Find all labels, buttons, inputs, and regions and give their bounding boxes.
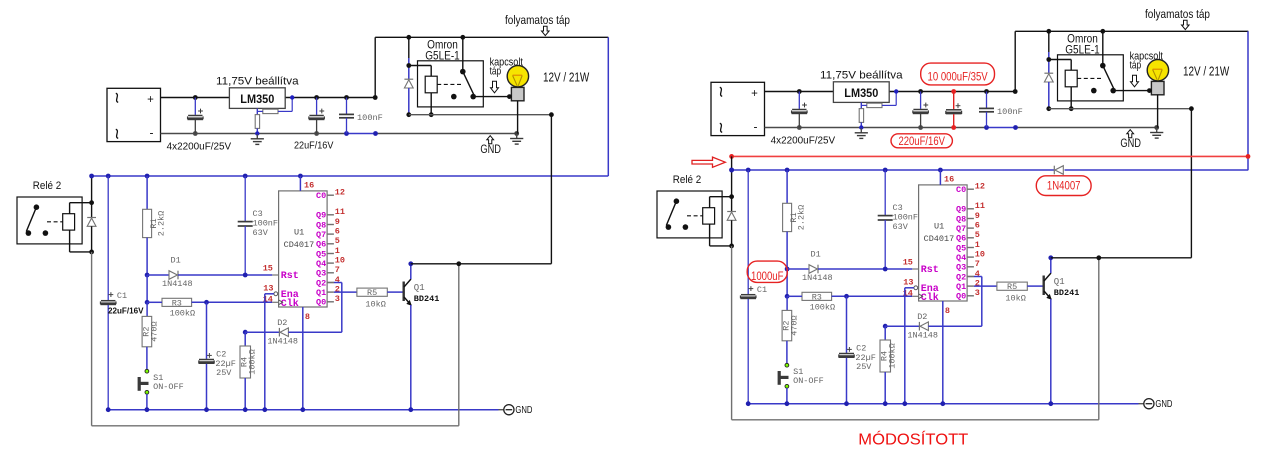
- svg-text:Q3: Q3: [956, 263, 966, 273]
- svg-text:1: 1: [975, 240, 980, 250]
- svg-text:10kΩ: 10kΩ: [1005, 294, 1025, 304]
- svg-text:2.2kΩ: 2.2kΩ: [156, 211, 166, 237]
- svg-text:Q3: Q3: [316, 269, 326, 279]
- svg-text:63V: 63V: [893, 222, 909, 232]
- svg-text:10: 10: [335, 256, 345, 266]
- svg-text:1N4148: 1N4148: [907, 331, 938, 341]
- svg-text:folyamatos táp: folyamatos táp: [1145, 7, 1210, 21]
- svg-text:Q8: Q8: [316, 220, 326, 230]
- svg-text:Q1: Q1: [316, 288, 326, 298]
- svg-text:folyamatos táp: folyamatos táp: [505, 13, 570, 27]
- svg-text:-: -: [150, 126, 154, 140]
- svg-text:1N4148: 1N4148: [267, 337, 298, 347]
- svg-text:9: 9: [975, 211, 980, 221]
- svg-text:63V: 63V: [253, 228, 269, 238]
- svg-text:6: 6: [335, 227, 340, 237]
- svg-text:+: +: [147, 94, 154, 106]
- svg-text:1000uF: 1000uF: [751, 271, 784, 283]
- svg-text:CD4017: CD4017: [924, 234, 955, 244]
- svg-text:GND: GND: [1155, 398, 1172, 410]
- svg-text:100kΩ: 100kΩ: [248, 349, 258, 375]
- svg-text:7: 7: [975, 259, 980, 269]
- svg-text:4: 4: [335, 275, 340, 285]
- svg-text:Q5: Q5: [316, 249, 326, 259]
- svg-text:470Ω: 470Ω: [150, 321, 160, 341]
- svg-text:Q1: Q1: [1054, 277, 1065, 287]
- svg-text:Q1: Q1: [414, 283, 425, 293]
- svg-text:100kΩ: 100kΩ: [888, 343, 898, 369]
- svg-text:Clk: Clk: [921, 292, 939, 304]
- svg-text:táp: táp: [490, 66, 502, 78]
- svg-text:100kΩ: 100kΩ: [170, 308, 196, 318]
- svg-text:R5: R5: [1007, 282, 1017, 292]
- svg-text:12: 12: [335, 188, 345, 198]
- svg-text:D2: D2: [277, 318, 287, 328]
- svg-text:Q6: Q6: [956, 234, 966, 244]
- svg-text:R3: R3: [172, 298, 182, 308]
- svg-text:Relé 2: Relé 2: [33, 180, 61, 192]
- svg-text:22uF/16V: 22uF/16V: [108, 306, 144, 316]
- svg-text:Q9: Q9: [956, 205, 966, 215]
- svg-text:100nF: 100nF: [357, 113, 383, 123]
- svg-text:3: 3: [975, 288, 980, 298]
- svg-text:100kΩ: 100kΩ: [810, 302, 836, 312]
- svg-text:4: 4: [975, 269, 980, 279]
- svg-text:15: 15: [903, 257, 913, 267]
- svg-text:Q9: Q9: [316, 211, 326, 221]
- svg-text:13: 13: [263, 283, 273, 293]
- svg-text:22uF/16V: 22uF/16V: [294, 141, 334, 152]
- svg-text:1N4148: 1N4148: [802, 273, 833, 283]
- svg-text:4x2200uF/25V: 4x2200uF/25V: [167, 141, 232, 152]
- svg-text:12: 12: [975, 182, 985, 192]
- svg-text:2: 2: [335, 285, 340, 295]
- svg-text:U1: U1: [294, 228, 304, 238]
- svg-text:12V / 21W: 12V / 21W: [1183, 63, 1230, 78]
- svg-text:11: 11: [335, 207, 345, 217]
- svg-text:Q2: Q2: [316, 278, 326, 288]
- svg-text:C0: C0: [956, 185, 966, 195]
- svg-text:Q5: Q5: [956, 243, 966, 253]
- svg-text:11,75V beállítva: 11,75V beállítva: [216, 75, 299, 87]
- svg-text:8: 8: [945, 306, 950, 316]
- svg-text:Q7: Q7: [956, 224, 966, 234]
- svg-text:Rst: Rst: [921, 265, 939, 276]
- svg-text:BD241: BD241: [1054, 288, 1080, 298]
- svg-text:8: 8: [305, 312, 310, 322]
- svg-text:16: 16: [944, 175, 954, 185]
- svg-text:GND: GND: [1120, 138, 1141, 150]
- svg-text:+: +: [751, 88, 758, 100]
- svg-text:GND: GND: [515, 404, 532, 416]
- svg-text:ON-OFF: ON-OFF: [793, 376, 824, 386]
- svg-text:C0: C0: [316, 191, 326, 201]
- svg-text:1N4148: 1N4148: [162, 279, 193, 289]
- svg-text:25V: 25V: [216, 368, 232, 378]
- svg-text:1N4007: 1N4007: [1047, 181, 1081, 193]
- svg-text:1: 1: [335, 246, 340, 256]
- svg-text:LM350: LM350: [240, 92, 274, 106]
- svg-text:Clk: Clk: [281, 298, 299, 310]
- svg-text:10: 10: [975, 250, 985, 260]
- svg-text:Q8: Q8: [956, 214, 966, 224]
- svg-text:MÓDOSÍTOTT: MÓDOSÍTOTT: [858, 430, 968, 449]
- svg-text:2: 2: [975, 279, 980, 289]
- svg-text:C1: C1: [117, 291, 127, 301]
- svg-text:R5: R5: [367, 288, 377, 298]
- svg-text:LM350: LM350: [844, 86, 878, 100]
- svg-text:4x2200uF/25V: 4x2200uF/25V: [771, 135, 836, 146]
- svg-text:100nF: 100nF: [997, 107, 1023, 117]
- svg-text:12V / 21W: 12V / 21W: [543, 69, 590, 84]
- svg-text:GND: GND: [480, 144, 501, 156]
- svg-text:10 000uF/35V: 10 000uF/35V: [928, 71, 988, 83]
- svg-text:10kΩ: 10kΩ: [365, 300, 385, 310]
- svg-text:Q0: Q0: [956, 292, 966, 302]
- svg-text:G5LE-1: G5LE-1: [1065, 44, 1100, 56]
- svg-text:R3: R3: [812, 292, 822, 302]
- svg-text:C1: C1: [757, 285, 767, 295]
- svg-text:6: 6: [975, 221, 980, 231]
- svg-text:BD241: BD241: [414, 294, 440, 304]
- svg-text:Q7: Q7: [316, 230, 326, 240]
- svg-text:11: 11: [975, 201, 985, 211]
- svg-text:11,75V beállítva: 11,75V beállítva: [820, 69, 903, 81]
- svg-text:Relé 2: Relé 2: [673, 174, 701, 186]
- svg-text:táp: táp: [1130, 60, 1142, 72]
- svg-text:Q4: Q4: [316, 259, 326, 269]
- svg-text:Rst: Rst: [281, 271, 299, 282]
- svg-text:-: -: [754, 120, 758, 134]
- svg-text:Q6: Q6: [316, 240, 326, 250]
- svg-text:Q1: Q1: [956, 282, 966, 292]
- svg-text:ON-OFF: ON-OFF: [153, 382, 184, 392]
- svg-text:7: 7: [335, 265, 340, 275]
- svg-text:Q0: Q0: [316, 298, 326, 308]
- svg-text:Q4: Q4: [956, 253, 966, 263]
- svg-text:15: 15: [263, 263, 273, 273]
- svg-text:D2: D2: [917, 312, 927, 322]
- svg-text:13: 13: [903, 277, 913, 287]
- svg-text:5: 5: [335, 236, 340, 246]
- svg-text:25V: 25V: [856, 362, 872, 372]
- svg-text:5: 5: [975, 230, 980, 240]
- svg-text:3: 3: [335, 294, 340, 304]
- svg-text:16: 16: [304, 181, 314, 191]
- svg-text:CD4017: CD4017: [284, 240, 315, 250]
- svg-text:U1: U1: [934, 222, 944, 232]
- svg-text:D1: D1: [811, 249, 821, 259]
- svg-text:G5LE-1: G5LE-1: [425, 50, 460, 62]
- svg-text:Q2: Q2: [956, 272, 966, 282]
- svg-text:470Ω: 470Ω: [790, 315, 800, 335]
- svg-text:2.2kΩ: 2.2kΩ: [796, 205, 806, 231]
- svg-text:220uF/16V: 220uF/16V: [898, 136, 945, 148]
- svg-text:D1: D1: [171, 255, 181, 265]
- svg-text:9: 9: [335, 217, 340, 227]
